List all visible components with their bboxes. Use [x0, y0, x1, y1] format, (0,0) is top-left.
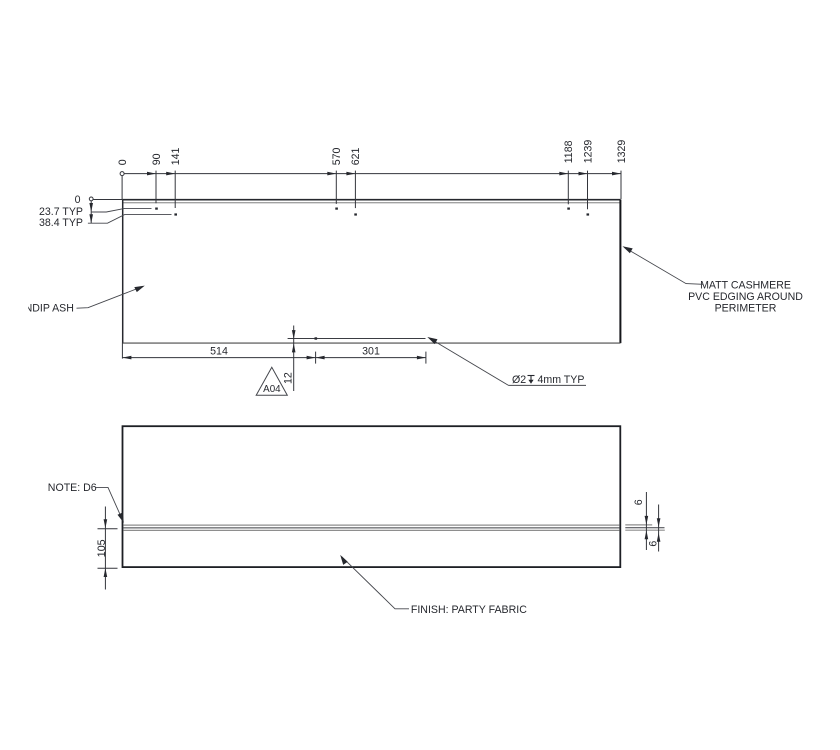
dimension 105: [96, 507, 117, 590]
dimension 6 lower: [648, 505, 661, 552]
svg-text:301: 301: [362, 346, 380, 358]
svg-text:6: 6: [648, 541, 660, 547]
label diameter 2 depth 4mm TYP: [427, 337, 586, 386]
dimension 301: [316, 346, 426, 364]
svg-text:0: 0: [117, 159, 129, 165]
svg-text:141: 141: [170, 148, 182, 166]
label NOTE: D6: [48, 482, 124, 523]
svg-text:12: 12: [283, 372, 295, 384]
label 23.7 TYP: [39, 206, 151, 218]
top ordinate dimension labels: [117, 140, 628, 166]
svg-text:90: 90: [151, 153, 163, 165]
svg-text:4mm TYP: 4mm TYP: [538, 374, 585, 386]
fabric groove lines: [123, 525, 619, 530]
svg-text:23.7 TYP: 23.7 TYP: [39, 206, 83, 218]
svg-text:570: 570: [331, 148, 343, 166]
groove line in plan (301 feature): [288, 337, 426, 339]
svg-text:38.4 TYP: 38.4 TYP: [39, 217, 83, 229]
top ordinate dimension line: [120, 172, 621, 176]
panel front view outline: [122, 200, 620, 343]
top dimension arrowheads: [147, 172, 621, 176]
svg-text:621: 621: [350, 148, 362, 166]
svg-text:6: 6: [633, 499, 645, 505]
svg-text:A04: A04: [263, 384, 281, 395]
svg-text:PERIMETER: PERIMETER: [715, 303, 777, 315]
groove extension lines right: [625, 525, 665, 530]
label MATT CASHMERE PVC EDGING AROUND PERIMETER: [688, 280, 803, 315]
svg-text:514: 514: [210, 346, 228, 358]
label 38.4 TYP: [39, 215, 171, 229]
drill marks on top edge: [155, 208, 589, 216]
svg-text:FINISH: PARTY FABRIC: FINISH: PARTY FABRIC: [411, 604, 527, 616]
svg-text:NOTE: D6: NOTE: D6: [48, 482, 97, 494]
label FINISH: PARTY FABRIC: [340, 555, 527, 616]
svg-text:1239: 1239: [582, 140, 594, 164]
label NDIP ASH (clipped at left): [0, 286, 145, 315]
dimension 12 (vertical): [283, 326, 296, 392]
dimension 6 upper: [633, 492, 648, 550]
svg-text:0: 0: [75, 194, 81, 206]
svg-text:NDIP ASH: NDIP ASH: [25, 302, 74, 314]
svg-text:MATT CASHMERE: MATT CASHMERE: [700, 280, 791, 292]
svg-text:105: 105: [96, 539, 108, 557]
top dimension extension ticks: [122, 171, 621, 210]
left depth stack: 0: [75, 194, 123, 223]
svg-text:1188: 1188: [563, 140, 575, 163]
svg-text:1329: 1329: [616, 140, 628, 164]
svg-text:PVC EDGING AROUND: PVC EDGING AROUND: [688, 291, 803, 303]
svg-text:Ø2: Ø2: [512, 374, 526, 386]
datum triangle A04: [256, 367, 287, 395]
dimension 514: [122, 343, 315, 364]
section view outline: [123, 426, 621, 567]
